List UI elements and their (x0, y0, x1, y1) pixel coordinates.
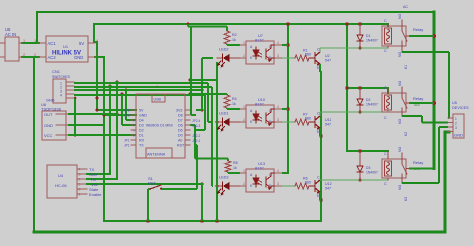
svg-text:547: 547 (325, 187, 331, 191)
svg-text:D5: D5 (178, 129, 183, 133)
connector U8 AC IN (0, 27, 25, 61)
wire S1 to GND bus (148, 189, 150, 221)
svg-text:K2: K2 (404, 132, 408, 136)
svg-text:JP1: JP1 (124, 139, 130, 143)
wire AC-in pin2 to HILINK AC2 (22, 56, 39, 58)
svg-text:K3: K3 (404, 197, 408, 201)
svg-text:1: 1 (79, 193, 81, 197)
wire opto U10 pin4 to 5V bus (282, 108, 288, 110)
wire relay K1 common to AC bus (409, 35, 434, 37)
wire relay K2 common to AC bus (409, 102, 434, 104)
svg-text:5V: 5V (139, 109, 144, 113)
svg-text:1: 1 (243, 41, 245, 45)
svg-text:Relay: Relay (413, 160, 423, 165)
wire net +5V rail (94, 24, 388, 42)
svg-text:K1: K1 (404, 65, 408, 69)
wire U2 collector to relay coil (320, 46, 388, 52)
svg-text:547: 547 (325, 59, 331, 63)
wire U12 emitter to GND bus (320, 192, 321, 200)
svg-text:JP1: JP1 (124, 144, 130, 148)
wire relay K3 common to AC bus (409, 168, 434, 170)
svg-text:HC-06: HC-06 (55, 183, 67, 188)
svg-text:U5: U5 (452, 101, 457, 105)
svg-text:817C: 817C (255, 103, 264, 107)
svg-text:NO: NO (398, 119, 402, 124)
svg-text:C: C (384, 116, 387, 120)
svg-text:LED2: LED2 (219, 48, 229, 52)
wire opto U13 pin3 to R6 (282, 185, 295, 187)
svg-text:JP2-4: JP2-4 (192, 119, 201, 123)
wire switch row to Wemos D3 (122, 94, 136, 125)
svg-text:U13: U13 (258, 162, 265, 166)
svg-text:1: 1 (23, 39, 25, 43)
svg-text:D3: D3 (366, 166, 370, 170)
wire net emitter GND bus (320, 72, 322, 221)
svg-text:3V3: 3V3 (176, 109, 182, 113)
svg-text:3: 3 (277, 182, 279, 186)
diode D2 1N4007 (357, 88, 378, 112)
svg-text:AC: AC (403, 5, 408, 9)
svg-text:3: 3 (455, 126, 457, 130)
wire opto U7 pin4 to 5V bus (282, 44, 288, 46)
svg-text:C: C (384, 86, 387, 90)
wire net GND drop from HILINK (95, 57, 104, 221)
svg-text:1N4007: 1N4007 (366, 171, 378, 175)
svg-text:U11: U11 (325, 118, 331, 122)
wire HC-06 Vcc drop to GND bus (201, 184, 203, 221)
svg-text:1: 1 (243, 105, 245, 109)
svg-text:3: 3 (277, 54, 279, 58)
LED LED3 (217, 176, 230, 196)
svg-text:DEVICES: DEVICES (452, 106, 469, 110)
svg-text:4: 4 (60, 94, 62, 98)
svg-text:GND: GND (139, 114, 147, 118)
svg-text:RX: RX (139, 139, 145, 143)
wire LED2 return (191, 79, 217, 81)
svg-text:U7: U7 (258, 34, 263, 38)
svg-text:Relay: Relay (413, 27, 423, 32)
wire net GND to Wemos GND pin (104, 114, 136, 116)
wire opto U10 pin3 to R7 (282, 121, 295, 123)
svg-text:U12: U12 (325, 182, 332, 186)
svg-text:U2: U2 (325, 54, 330, 58)
svg-text:GND: GND (44, 123, 53, 128)
relay K2 (382, 81, 423, 136)
wire relay K3 output to devices pin3 (402, 127, 448, 183)
wire net AC-neutral bottom rail (34, 132, 449, 232)
svg-text:CN1: CN1 (52, 69, 61, 74)
svg-text:WEMOS D1 MINI: WEMOS D1 MINI (146, 124, 173, 128)
svg-text:GND: GND (454, 133, 463, 138)
wire U11 emitter to GND bus (320, 128, 321, 136)
svg-text:U1: U1 (63, 44, 69, 49)
svg-text:C: C (384, 19, 387, 23)
svg-text:2: 2 (34, 53, 36, 57)
wire LED2 to opto pin2 (230, 57, 241, 59)
diode D3 1N4007 (357, 151, 378, 180)
svg-text:817C: 817C (255, 39, 264, 43)
wire opto U13 pin4 to 5V bus (282, 172, 288, 174)
wire HC-06 Rx pin (87, 82, 117, 182)
optocoupler U13 817C (240, 162, 282, 192)
wire R8 to opto pin1 (228, 172, 240, 173)
svg-text:ANTENNA: ANTENNA (147, 153, 166, 157)
relay K1 (382, 14, 423, 69)
optocoupler U7 817C (240, 34, 282, 64)
transistor U11 BC547 (309, 112, 331, 135)
svg-text:D2: D2 (139, 129, 144, 133)
svg-text:A0: A0 (178, 139, 182, 143)
svg-text:GND: GND (46, 99, 55, 103)
svg-text:D1: D1 (139, 134, 144, 138)
connector U5 DEVICES (448, 101, 469, 138)
wire Wemos D8 feed (191, 27, 196, 116)
LED LED1 (217, 112, 230, 132)
wire net +5V relay coil feed bus (346, 24, 348, 151)
svg-text:4: 4 (277, 105, 279, 109)
svg-text:AC1: AC1 (48, 41, 57, 46)
svg-text:RST: RST (177, 144, 185, 148)
wire relay1 coil feed (387, 24, 389, 26)
wire Wemos RST to switch S1 (161, 145, 197, 189)
svg-text:C: C (317, 176, 320, 180)
wire HC-06 Gnd pin (87, 86, 110, 177)
svg-text:2: 2 (79, 178, 81, 182)
svg-text:4: 4 (277, 169, 279, 173)
wire U12 collector to relay coil (320, 179, 388, 181)
svg-text:D7: D7 (178, 119, 183, 123)
wire LED cathode bus (216, 62, 218, 221)
wire U11 collector to relay coil (320, 110, 388, 116)
svg-text:JP1: JP1 (124, 114, 130, 118)
diode D1 1N4007 (357, 24, 378, 48)
wire switch row to Wemos D4 (126, 90, 136, 120)
wire R8 feed from Wemos (190, 125, 228, 161)
svg-text:3: 3 (96, 53, 98, 57)
svg-text:JP2-1: JP2-1 (192, 139, 201, 143)
svg-text:LED1: LED1 (219, 112, 229, 116)
wire relay2 coil feed (347, 88, 388, 93)
svg-text:560: 560 (305, 117, 311, 121)
svg-text:547: 547 (325, 123, 331, 127)
wire HC-06 Vcc pin (87, 182, 202, 187)
svg-text:2: 2 (243, 182, 245, 186)
wire TSOP OUT to Wemos D4 (68, 113, 117, 115)
svg-text:NO: NO (398, 52, 402, 57)
wire R2 pull feed from 5V rail (188, 24, 227, 31)
svg-text:TSOP1838: TSOP1838 (41, 107, 62, 112)
switch S1 RST (148, 176, 162, 190)
relay K3 (382, 147, 423, 201)
wire net AC-live top rail (37, 12, 434, 43)
svg-text:VCC: VCC (44, 133, 53, 138)
resistor R4 1k (224, 95, 237, 108)
IR receiver U6 TSOP1838 (41, 102, 68, 140)
wire TSOP GND row (68, 124, 104, 126)
wire CN1 switch 3 row (74, 89, 202, 91)
svg-text:560: 560 (305, 181, 311, 185)
resistor R2 1k (224, 31, 237, 44)
svg-text:2: 2 (23, 53, 25, 57)
wire R4 feed row (191, 94, 227, 95)
svg-text:LED3: LED3 (219, 176, 229, 180)
svg-text:1N4007: 1N4007 (366, 103, 378, 107)
svg-text:D1: D1 (366, 34, 370, 38)
svg-text:U10: U10 (258, 98, 265, 102)
wire net 5V drop to Wemos (95, 42, 136, 110)
wire relay K2 output to devices pin2 (402, 116, 448, 123)
svg-text:OUT: OUT (44, 112, 53, 117)
wire AC-in pin1 to HILINK AC1 (22, 42, 39, 44)
svg-text:D6: D6 (178, 124, 183, 128)
svg-text:R8: R8 (233, 161, 238, 165)
svg-text:R2: R2 (232, 33, 237, 37)
svg-text:817C: 817C (255, 167, 264, 171)
connector CN1 SWITCHES (46, 69, 74, 103)
svg-text:D8: D8 (178, 114, 183, 118)
svg-text:3: 3 (277, 118, 279, 122)
svg-text:1N4007: 1N4007 (366, 39, 378, 43)
svg-text:NO: NO (398, 14, 402, 19)
svg-text:D0: D0 (178, 134, 183, 138)
transistor U12 BC547 (309, 176, 332, 199)
wire CN1 switch 2 row (74, 87, 213, 186)
LED LED2 (217, 48, 230, 68)
svg-text:SWITCHES: SWITCHES (52, 75, 71, 79)
svg-text:560: 560 (305, 53, 311, 57)
svg-text:JP2-3: JP2-3 (192, 124, 201, 128)
wire U2 emitter to GND bus (320, 64, 321, 72)
svg-text:2: 2 (243, 54, 245, 58)
power module U1 HILINK 5V (34, 36, 98, 62)
resistor R1 560 (295, 49, 311, 62)
svg-text:HILINK 5V: HILINK 5V (52, 51, 81, 57)
svg-text:RST: RST (148, 181, 157, 186)
resistor R7 560 (295, 113, 311, 126)
svg-text:1: 1 (34, 39, 36, 43)
svg-text:R4: R4 (232, 97, 237, 101)
svg-text:D3: D3 (139, 124, 144, 128)
svg-text:U4: U4 (58, 173, 64, 178)
wire opto U7 pin3 to R1 (282, 57, 295, 59)
svg-text:NO: NO (398, 185, 402, 190)
wire net AC-neutral left drop (33, 57, 35, 232)
svg-text:JP1: JP1 (124, 109, 130, 113)
wire relay3 coil feed (347, 150, 388, 152)
svg-text:C: C (384, 152, 387, 156)
svg-text:5: 5 (79, 183, 81, 187)
microcontroller module WEMOS D1 MINI (124, 84, 201, 158)
svg-text:D4: D4 (139, 119, 144, 123)
svg-text:D2: D2 (366, 98, 370, 102)
svg-text:C: C (384, 182, 387, 186)
svg-text:Enable: Enable (89, 192, 102, 197)
wire net GND bottom bus (104, 220, 321, 222)
svg-text:JP2-2: JP2-2 (192, 134, 201, 138)
svg-text:5V: 5V (79, 41, 84, 46)
wire CN1 GND pin down (74, 99, 75, 135)
svg-text:2: 2 (455, 122, 457, 126)
svg-text:NO: NO (398, 81, 402, 86)
wire LED1 to opto pin2 (230, 121, 241, 123)
svg-text:1k: 1k (232, 102, 236, 106)
wire net AC-live relay common bus (433, 12, 436, 169)
optocoupler U10 817C (240, 98, 282, 128)
svg-text:1: 1 (455, 117, 457, 121)
wire LED3 to opto pin2 (230, 185, 241, 187)
bluetooth module U4 HC-06 (47, 165, 102, 198)
svg-text:NO: NO (398, 147, 402, 152)
svg-text:USB: USB (154, 98, 162, 102)
svg-text:2: 2 (243, 118, 245, 122)
wire TSOP VCC row to Wemos D1 (68, 134, 136, 136)
wire relay K1 output to devices pin1 (402, 52, 449, 118)
svg-text:3: 3 (79, 173, 81, 177)
junction dots on power rails (73, 22, 436, 222)
wire CN1 switch 4 row to Wemos D5 (74, 95, 205, 130)
wire R2 to opto pin1 (227, 44, 240, 45)
svg-text:Vcc: Vcc (91, 182, 98, 187)
transistor U2 BC547 (309, 48, 331, 71)
svg-text:6: 6 (79, 188, 81, 192)
svg-text:4: 4 (277, 41, 279, 45)
svg-text:Relay: Relay (413, 96, 423, 101)
wire Wemos 3V3 pin to LED2 row (196, 58, 213, 110)
svg-text:4: 4 (79, 168, 81, 172)
svg-text:4: 4 (96, 39, 98, 43)
svg-text:1k: 1k (232, 38, 236, 42)
svg-text:1k: 1k (233, 166, 237, 170)
svg-text:1: 1 (243, 169, 245, 173)
wire net +5V opto-collector bus (287, 24, 289, 173)
wire CN1 switch 1 row (74, 83, 212, 122)
resistor R8 1k (225, 161, 238, 172)
resistor R6 560 (295, 177, 311, 190)
svg-text:TX: TX (139, 144, 144, 148)
svg-text:AC IN: AC IN (5, 32, 16, 37)
wire R4 to opto pin1 (227, 108, 240, 109)
svg-text:C: C (384, 49, 387, 53)
